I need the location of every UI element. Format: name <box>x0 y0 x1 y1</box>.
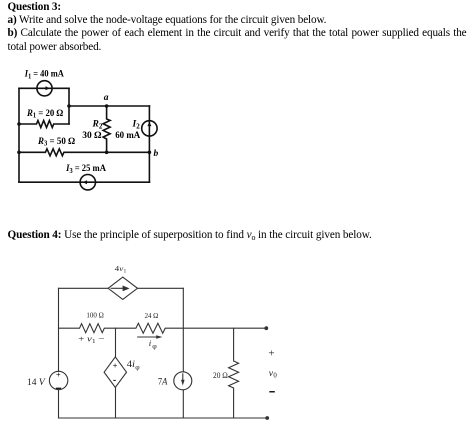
terminal dot bottom right <box>265 416 269 420</box>
arrowhead of I2 (points up) <box>147 122 151 126</box>
svg-text:+ v1 −: + v1 − <box>78 333 104 345</box>
svg-text:R2: R2 <box>92 120 103 131</box>
current source I3 circle <box>80 175 95 190</box>
wire: circuit2 top wire left of diamond <box>59 287 109 289</box>
arrow shaft inside 7A <box>182 374 184 381</box>
svg-text:+: + <box>113 360 118 370</box>
resistor 20 ohm <box>229 328 239 418</box>
voltage source 14V circle <box>49 371 67 389</box>
label - of v0 <box>269 391 275 393</box>
dependent current source 4v1 diamond <box>108 277 137 299</box>
wire: circuit1 middle wire to node a <box>69 105 149 107</box>
svg-text:+: + <box>56 370 61 380</box>
wire: circuit1 right rail lower <box>148 152 150 182</box>
question 4 text <box>8 229 474 242</box>
terminal dot top right <box>264 326 268 330</box>
svg-text:b: b <box>154 149 159 159</box>
wire: circuit2 right rail upper <box>182 288 184 418</box>
junction dot node b <box>148 151 152 155</box>
wire: circuit1 left rail <box>18 88 20 182</box>
wire: circuit2 left rail <box>58 288 60 418</box>
svg-text:20 Ω: 20 Ω <box>213 371 228 380</box>
arrow shaft i_phi <box>138 336 157 338</box>
svg-text:1: 1 <box>124 268 127 274</box>
question 3 text <box>8 1 467 54</box>
wire: circuit2 top wire right of diamond <box>138 287 184 289</box>
svg-text:100 Ω: 100 Ω <box>86 311 104 320</box>
svg-text:0: 0 <box>273 373 277 380</box>
wire: circuit1 top wire <box>19 87 69 89</box>
arrowhead of I1 (points right) <box>46 86 50 90</box>
svg-text:+: + <box>268 348 274 360</box>
svg-text:14 V: 14 V <box>27 377 46 387</box>
svg-text:I1 = 40 mA: I1 = 40 mA <box>24 70 64 81</box>
svg-text:I2: I2 <box>132 120 141 131</box>
arrowhead of I3 (points left) <box>83 180 87 184</box>
junction dot left rail at R3 <box>17 151 21 155</box>
svg-text:30 Ω: 30 Ω <box>82 131 102 141</box>
resistor R2 <box>103 106 110 152</box>
wire: circuit2 middle branch (dependent source 4i) <box>115 328 117 418</box>
dependent voltage source 4i diamond <box>104 357 126 388</box>
svg-text:φ: φ <box>152 341 157 350</box>
svg-text:a: a <box>104 93 109 103</box>
arrowhead inside 4v1 (points right) <box>123 286 130 292</box>
wire: circuit2 bottom wire <box>59 417 268 419</box>
svg-text:R1 = 20 Ω: R1 = 20 Ω <box>26 109 64 120</box>
current source 7A circle <box>174 372 192 390</box>
svg-text:60 mA: 60 mA <box>115 131 140 141</box>
wire: circuit1 bottom wire <box>19 181 149 183</box>
junction dot R2 bottom <box>105 151 109 155</box>
svg-text:I3 = 25 mA: I3 = 25 mA <box>65 164 106 175</box>
resistor R3 <box>19 149 149 156</box>
wire: circuit1 vertical between top wire and R1 <box>68 88 70 124</box>
current source I1 circle <box>37 81 52 96</box>
minus sign inside 4i diamond <box>113 380 116 381</box>
wire: circuit1 right rail upper <box>148 106 150 152</box>
resistor R1 <box>19 121 69 128</box>
resistor 100 ohm <box>59 324 116 333</box>
current source I2 circle <box>142 121 157 136</box>
svg-text:24 Ω: 24 Ω <box>145 311 159 320</box>
svg-text:R3 = 50 Ω: R3 = 50 Ω <box>37 137 76 148</box>
svg-text:4i: 4i <box>127 359 136 369</box>
resistor 24 ohm <box>116 323 267 333</box>
arrow shaft inside 4v1 <box>111 287 123 289</box>
arrowhead inside 7A (points down) <box>181 380 185 386</box>
junction dot left rail at R1 <box>17 122 21 126</box>
junction dot at x69 on middle wire <box>67 104 71 108</box>
minus sign inside 14V source <box>56 388 61 389</box>
svg-text:7A: 7A <box>158 377 168 387</box>
svg-text:φ: φ <box>135 363 140 372</box>
junction dot node a <box>105 104 109 108</box>
arrowhead i_phi (points right) <box>156 335 162 338</box>
